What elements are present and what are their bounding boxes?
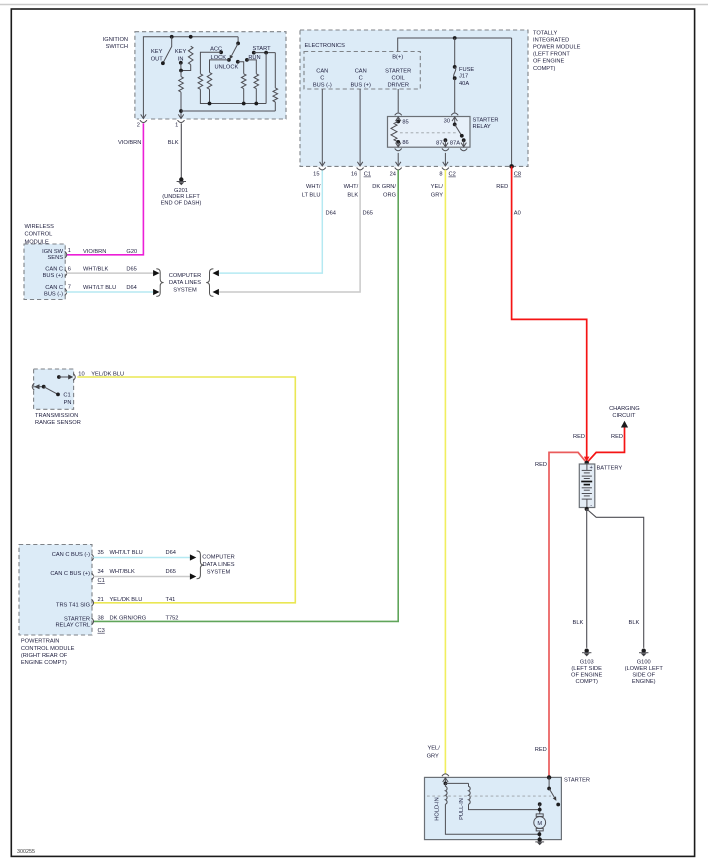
- svg-text:300255: 300255: [17, 849, 35, 855]
- starter mechanical link (dashed): [427, 795, 551, 797]
- svg-text:ELECTRONICS: ELECTRONICS: [305, 43, 346, 49]
- svg-text:COIL: COIL: [392, 76, 405, 82]
- svg-text:OF ENGINE: OF ENGINE: [533, 59, 564, 65]
- node: top bus junction A: [170, 35, 174, 39]
- svg-text:BLK: BLK: [168, 140, 179, 146]
- svg-text:CAN C BUS (-): CAN C BUS (-): [52, 552, 90, 558]
- svg-text:STARTER: STARTER: [385, 69, 411, 75]
- relay switch blade 30-87A: [453, 123, 457, 127]
- ground G103: [585, 649, 589, 653]
- totally integrated power module box: [300, 30, 528, 166]
- svg-text:VIO/BRN: VIO/BRN: [118, 140, 141, 146]
- svg-text:C1: C1: [98, 578, 105, 584]
- svg-text:COMPUTER: COMPUTER: [202, 555, 235, 561]
- svg-text:BLK: BLK: [347, 192, 358, 198]
- svg-text:RED: RED: [611, 434, 623, 440]
- terminal relay pin 85: [396, 117, 401, 121]
- red entry node: [547, 775, 551, 779]
- computer data lines system (left): [156, 269, 163, 297]
- wire WHT/BLK PCM pin34: [93, 576, 190, 578]
- wire WHT/BLK from TIPM pin 16: [213, 289, 219, 295]
- pull-in coil: [469, 783, 471, 804]
- wire electronics to relay pin 85: [397, 89, 399, 112]
- wire BLK ignition pin1 to G201: [180, 123, 182, 178]
- svg-text:BUS (-): BUS (-): [44, 291, 63, 297]
- svg-text:CAN C: CAN C: [45, 267, 63, 273]
- svg-text:D64: D64: [126, 285, 136, 291]
- WCM pin 6 CAN C BUS (+): [65, 270, 67, 277]
- relay coil: [396, 120, 400, 124]
- svg-text:DATA LINES: DATA LINES: [202, 562, 234, 568]
- WCM pin 1 IGN SW SENS: [65, 251, 67, 258]
- wire C8 feed: [511, 38, 513, 166]
- svg-text:IGNITION: IGNITION: [103, 37, 128, 43]
- starter box: [425, 777, 562, 839]
- ignition rotary blade: [237, 37, 239, 44]
- PCM pin 38 STARTER RELAY CTRL: [92, 618, 94, 625]
- svg-text:WHT/LT BLU: WHT/LT BLU: [110, 550, 143, 556]
- svg-text:SENS: SENS: [48, 255, 64, 261]
- svg-text:CHARGING: CHARGING: [609, 406, 640, 412]
- svg-text:CONTROL: CONTROL: [25, 231, 53, 237]
- svg-text:ENGINE COMPT): ENGINE COMPT): [21, 660, 67, 666]
- node on start wire: [264, 51, 268, 55]
- svg-text:VIO/BRN: VIO/BRN: [83, 249, 106, 255]
- svg-text:TRANSMISSION: TRANSMISSION: [35, 413, 78, 419]
- svg-text:1: 1: [175, 123, 178, 129]
- top rule: [0, 4, 708, 6]
- svg-text:7: 7: [68, 285, 71, 291]
- terminal relay pin 30: [452, 117, 457, 121]
- svg-text:PN: PN: [64, 400, 72, 406]
- resistor (RUN): [254, 74, 259, 89]
- svg-text:INTEGRATED: INTEGRATED: [533, 38, 569, 44]
- relay mechanical link (dashed): [400, 132, 456, 134]
- svg-text:KEY: KEY: [175, 49, 187, 55]
- node pull-in junction: [538, 808, 542, 812]
- PCM pin 35 CAN C BUS (-): [92, 554, 94, 561]
- svg-text:(LEFT FRONT: (LEFT FRONT: [533, 52, 570, 58]
- svg-text:CAN: CAN: [316, 69, 328, 75]
- wire: [181, 65, 191, 71]
- svg-text:WHT/: WHT/: [306, 184, 321, 190]
- svg-text:G100: G100: [637, 660, 651, 666]
- svg-text:C: C: [359, 76, 363, 82]
- wire RED battery to charging circuit: [587, 427, 625, 463]
- wire RED C8 to battery: [512, 166, 587, 459]
- node: pin1 junction: [179, 109, 183, 113]
- svg-text:M: M: [537, 821, 542, 827]
- svg-text:YEL/DK BLU: YEL/DK BLU: [110, 597, 143, 603]
- wire WHT/LT BLU from WCM pin7: [66, 291, 153, 293]
- svg-text:POWER MODULE: POWER MODULE: [533, 45, 581, 51]
- switch LOCK contact and branch: [227, 58, 231, 62]
- svg-text:RED: RED: [535, 462, 547, 468]
- node: top bus junction B: [189, 35, 193, 39]
- svg-text:COMPT): COMPT): [575, 679, 598, 685]
- switch RUN contact and branch: [245, 58, 249, 62]
- resistor (key-in upper): [188, 46, 193, 64]
- svg-text:G103: G103: [580, 660, 594, 666]
- motor fixed contact: [538, 802, 542, 806]
- svg-text:SWITCH: SWITCH: [106, 44, 128, 50]
- svg-text:RED: RED: [573, 434, 585, 440]
- svg-text:C2: C2: [449, 172, 456, 178]
- svg-text:STARTER: STARTER: [473, 118, 499, 124]
- svg-text:35: 35: [98, 550, 104, 556]
- fuse J17 40A: [453, 65, 457, 69]
- wire BLK battery to G100: [587, 509, 644, 648]
- svg-text:UNLOCK: UNLOCK: [215, 65, 239, 71]
- svg-text:ORG: ORG: [383, 192, 396, 198]
- relay pin 87: [444, 138, 448, 142]
- TRS switch: [42, 385, 46, 389]
- svg-text:LOCK: LOCK: [211, 55, 227, 61]
- svg-text:A0: A0: [514, 210, 521, 216]
- wire YEL/GRY TIPM pin8 to starter: [444, 170, 446, 774]
- resistor (UNLOCK): [241, 74, 246, 89]
- resistor (LOCK): [207, 72, 212, 89]
- svg-text:C3: C3: [98, 628, 105, 634]
- svg-text:(LEFT SIDE: (LEFT SIDE: [571, 666, 602, 672]
- svg-text:START: START: [252, 46, 271, 52]
- powertrain control module box: [19, 545, 92, 636]
- svg-text:HOLD-IN: HOLD-IN: [435, 797, 441, 820]
- motor M: [536, 814, 543, 817]
- svg-text:PULL-IN: PULL-IN: [459, 798, 465, 820]
- svg-text:D65: D65: [363, 210, 373, 216]
- switch UNLOCK contact and branch: [236, 60, 240, 64]
- svg-text:2: 2: [137, 123, 140, 129]
- ground G100: [642, 649, 646, 653]
- svg-text:C8: C8: [514, 172, 521, 178]
- transmission range sensor box: [34, 369, 74, 409]
- svg-text:SIDE OF: SIDE OF: [632, 672, 655, 678]
- svg-text:DK GRN/: DK GRN/: [372, 184, 396, 190]
- svg-text:24: 24: [390, 172, 396, 178]
- svg-text:ACC: ACC: [210, 46, 222, 52]
- svg-text:RED: RED: [535, 747, 547, 753]
- svg-text:D65: D65: [126, 267, 136, 273]
- starter ground: [538, 837, 542, 841]
- svg-text:RANGE SENSOR: RANGE SENSOR: [35, 420, 81, 426]
- PCM pin 21 TRS T41 SIG: [92, 599, 94, 606]
- svg-text:LT BLU: LT BLU: [302, 192, 321, 198]
- svg-text:BLK: BLK: [629, 620, 640, 626]
- svg-text:RELAY CTRL: RELAY CTRL: [55, 623, 90, 629]
- svg-text:BUS (+): BUS (+): [351, 83, 371, 89]
- resistor (key-in lower): [179, 77, 184, 93]
- svg-text:C: C: [320, 76, 324, 82]
- svg-text:OF ENGINE: OF ENGINE: [571, 672, 602, 678]
- svg-text:ENGINE): ENGINE): [632, 679, 656, 685]
- svg-text:COMPT): COMPT): [533, 66, 556, 72]
- svg-text:30: 30: [444, 118, 450, 124]
- svg-text:SYSTEM: SYSTEM: [207, 570, 231, 576]
- wire start to bus: [265, 53, 267, 104]
- switch ACC contact and branch: [219, 50, 223, 54]
- hold-in coil: [445, 783, 447, 804]
- svg-text:WHT/BLK: WHT/BLK: [110, 569, 135, 575]
- svg-text:CAN C: CAN C: [45, 285, 63, 291]
- node C8: [509, 164, 514, 169]
- ground G201: [179, 177, 183, 181]
- svg-text:87: 87: [436, 141, 442, 147]
- wireless control module box: [24, 244, 65, 300]
- ignition switch box: [135, 32, 286, 119]
- svg-text:YEL/: YEL/: [427, 746, 440, 752]
- svg-text:15: 15: [313, 172, 319, 178]
- svg-text:(UNDER LEFT: (UNDER LEFT: [162, 194, 200, 200]
- svg-text:G201: G201: [174, 188, 188, 194]
- svg-text:RUN: RUN: [248, 55, 260, 61]
- wire VIO/BRN (magenta) ignition pin2 to WCM pin1: [66, 123, 143, 255]
- svg-text:G20: G20: [126, 249, 137, 255]
- switch KEY OUT: [163, 37, 172, 63]
- svg-text:OUT: OUT: [151, 56, 164, 62]
- svg-text:CONTROL MODULE: CONTROL MODULE: [21, 646, 75, 652]
- svg-text:38: 38: [98, 615, 104, 621]
- svg-text:BATTERY: BATTERY: [597, 466, 623, 472]
- svg-text:T752: T752: [166, 615, 179, 621]
- wire WHT/LT BLU from TIPM pin 15: [213, 270, 219, 276]
- svg-text:DATA LINES: DATA LINES: [169, 280, 201, 286]
- svg-text:WHT/: WHT/: [344, 184, 359, 190]
- wire: ignition top bus: [143, 37, 238, 119]
- svg-text:SYSTEM: SYSTEM: [173, 287, 197, 293]
- battery: [579, 464, 595, 508]
- svg-text:TRS T41 SIG: TRS T41 SIG: [56, 603, 90, 609]
- svg-text:RED: RED: [496, 184, 508, 190]
- svg-text:POWERTRAIN: POWERTRAIN: [21, 639, 59, 645]
- svg-text:86: 86: [402, 140, 408, 146]
- svg-text:(RIGHT REAR OF: (RIGHT REAR OF: [21, 653, 68, 659]
- battery negative node: [585, 507, 589, 511]
- svg-text:C1: C1: [63, 393, 70, 399]
- wire RED battery to starter solenoid: [549, 452, 587, 776]
- wire B(+) feed: [398, 38, 512, 52]
- battery junction node: [585, 461, 589, 465]
- wire coil top bus: [445, 782, 468, 784]
- svg-text:IN: IN: [178, 56, 184, 62]
- svg-text:BUS (+): BUS (+): [43, 273, 63, 279]
- svg-text:WIRELESS: WIRELESS: [25, 224, 55, 230]
- svg-text:RELAY: RELAY: [473, 124, 491, 130]
- svg-text:KEY: KEY: [151, 49, 163, 55]
- terminal pin 1: [177, 118, 186, 120]
- resistor (ACC): [198, 74, 203, 90]
- starter solenoid switch: [548, 777, 550, 788]
- svg-text:YEL/: YEL/: [431, 184, 444, 190]
- svg-text:GRY: GRY: [427, 754, 439, 760]
- switch KEY IN contact: [179, 61, 183, 65]
- svg-text:8: 8: [439, 172, 442, 178]
- svg-text:21: 21: [98, 597, 104, 603]
- svg-text:C1: C1: [364, 172, 371, 178]
- PCM pin 34 CAN C BUS (+): [92, 573, 94, 580]
- svg-text:T41: T41: [166, 597, 176, 603]
- svg-text:GRY: GRY: [431, 192, 443, 198]
- svg-text:DRIVER: DRIVER: [387, 83, 409, 89]
- svg-text:16: 16: [351, 172, 357, 178]
- wire fuse to relay pin 30: [454, 78, 456, 112]
- TRS pin 10 contact: [57, 375, 61, 379]
- wire WHT/LT BLU PCM pin35: [93, 557, 190, 559]
- wire relay 86 to TIPM pin 24: [397, 142, 399, 147]
- svg-text:BUS (-): BUS (-): [313, 83, 332, 89]
- wire electronics to TIPM pin 16: [359, 89, 361, 166]
- svg-text:40A: 40A: [459, 81, 469, 87]
- svg-text:(LOWER LEFT: (LOWER LEFT: [625, 666, 664, 672]
- svg-text:1: 1: [68, 248, 71, 254]
- wire: lower bus to start resistor: [181, 110, 275, 112]
- svg-text:TOTALLY: TOTALLY: [533, 31, 558, 37]
- svg-text:87A: 87A: [450, 141, 460, 147]
- terminal pin 2: [139, 118, 148, 120]
- node hold-in junction: [538, 832, 542, 836]
- svg-text:STARTER: STARTER: [64, 617, 90, 623]
- svg-text:CAN: CAN: [355, 69, 367, 75]
- node: key-in junction: [179, 69, 183, 73]
- terminal starter yellow pin: [443, 778, 448, 782]
- svg-text:IGN SW: IGN SW: [42, 249, 63, 255]
- svg-text:J17: J17: [459, 74, 468, 80]
- svg-text:FUSE: FUSE: [459, 67, 474, 73]
- svg-text:-: -: [590, 503, 592, 509]
- starter relay box: [388, 117, 471, 148]
- WCM pin 7 CAN C BUS (-): [65, 289, 67, 296]
- wire WHT/BLK from WCM pin6: [66, 272, 153, 274]
- wire BLK battery to G103: [586, 509, 588, 648]
- svg-text:CIRCUIT: CIRCUIT: [612, 413, 636, 419]
- svg-text:END OF DASH): END OF DASH): [161, 201, 202, 207]
- svg-text:BLK: BLK: [573, 620, 584, 626]
- charging circuit arrow: [621, 421, 628, 428]
- computer data lines system (PCM): [197, 551, 204, 579]
- svg-text:D64: D64: [326, 210, 336, 216]
- svg-text:STARTER: STARTER: [564, 778, 590, 784]
- svg-text:COMPUTER: COMPUTER: [169, 273, 202, 279]
- svg-text:34: 34: [98, 569, 104, 575]
- svg-text:WHT/BLK: WHT/BLK: [83, 267, 108, 273]
- svg-text:B(+): B(+): [392, 55, 403, 61]
- svg-text:CAN C BUS (+): CAN C BUS (+): [50, 571, 90, 577]
- svg-text:85: 85: [402, 120, 408, 126]
- svg-text:D65: D65: [166, 569, 176, 575]
- TRS left pin: [34, 384, 39, 389]
- svg-text:6: 6: [68, 266, 71, 272]
- svg-text:WHT/LT BLU: WHT/LT BLU: [83, 285, 116, 291]
- wire YEL/DK BLU TRS pin10 to PCM pin21: [77, 377, 295, 603]
- relay pin 87A: [463, 140, 465, 147]
- wire to fuse: [454, 38, 456, 67]
- wire electronics to TIPM pin 15: [321, 89, 323, 166]
- svg-text:D64: D64: [166, 550, 176, 556]
- svg-text:DK GRN/ORG: DK GRN/ORG: [110, 615, 147, 621]
- wire relay 87 to TIPM pin 8: [444, 153, 446, 166]
- wire to pin 1: [180, 71, 182, 119]
- resistor (START): [274, 53, 276, 88]
- node fuse junction: [453, 36, 457, 40]
- wire DK GRN/ORG TIPM pin24 to PCM pin38: [93, 170, 398, 622]
- switch START contact wire: [252, 51, 256, 55]
